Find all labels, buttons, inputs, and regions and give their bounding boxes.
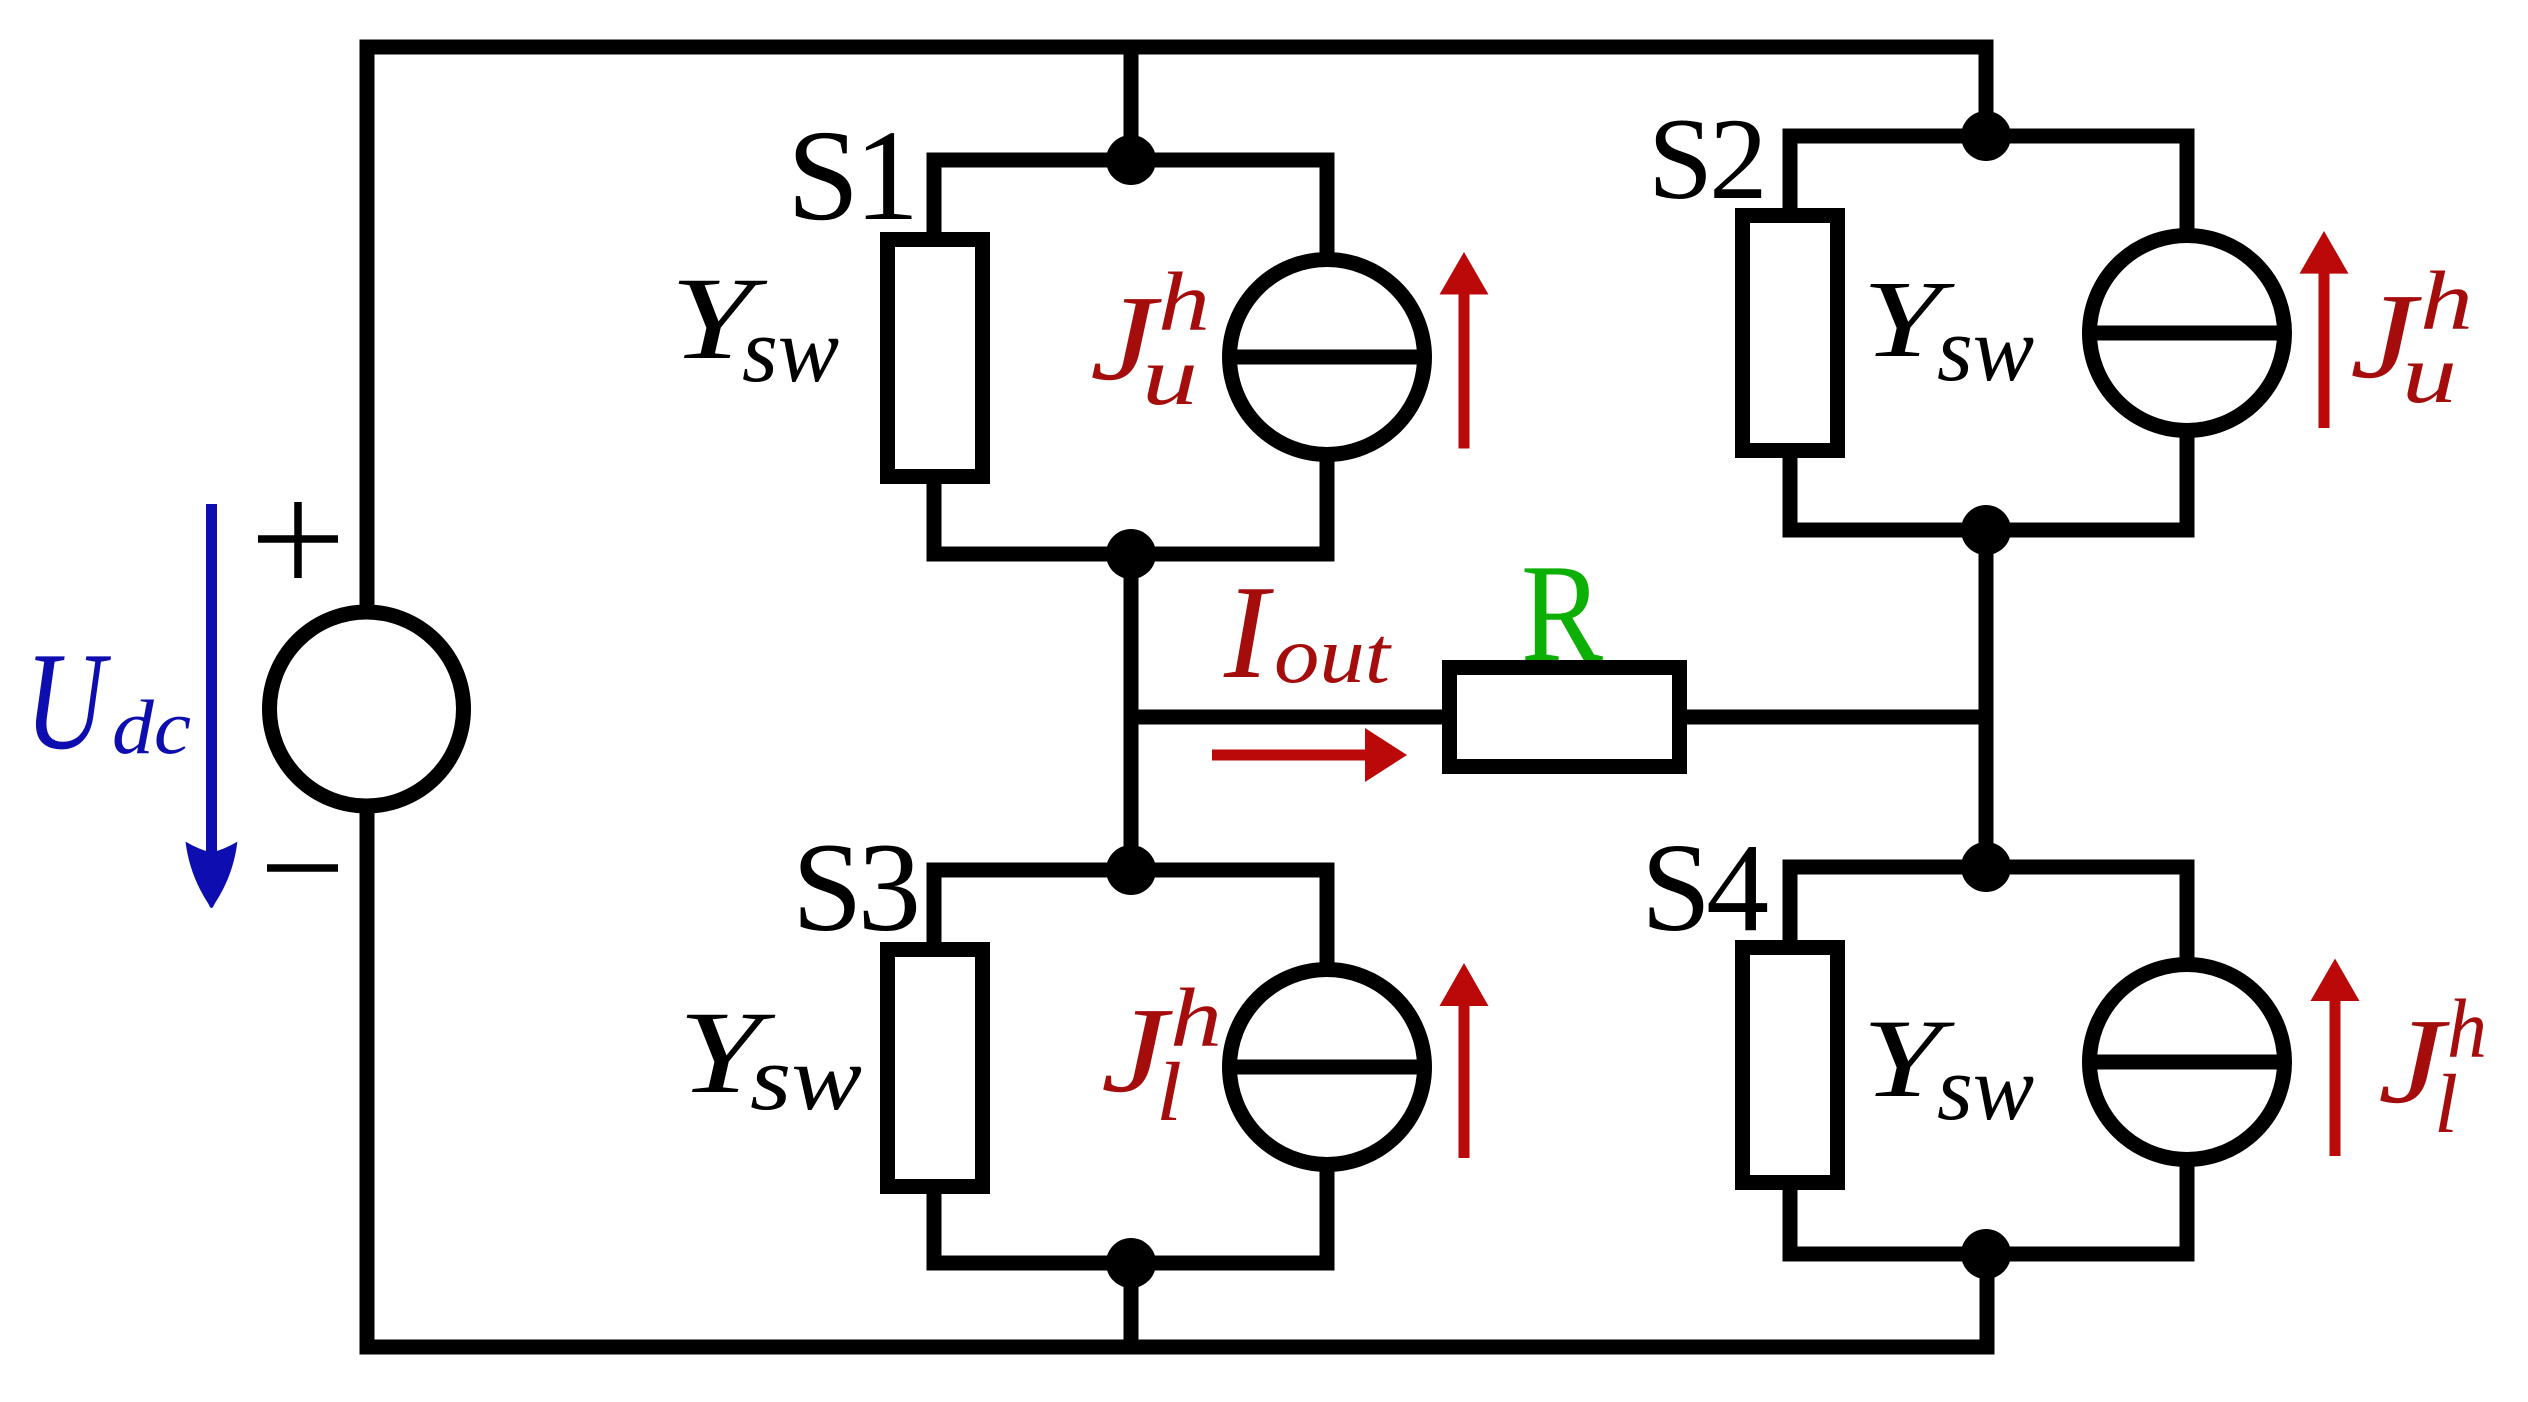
wire S3 cell bottom U [934,1162,1327,1263]
current arrow of J4 [2330,999,2341,1156]
current arrow Iout [1212,750,1367,761]
svg-text:sw: sw [1937,1037,2034,1139]
wire S4 cell top U [1790,867,2187,969]
wire output left segment [1124,710,1443,725]
wire S4 cell bottom U [1790,1157,2187,1254]
wire mid-right vertical [1979,530,1994,867]
voltage arrow Udc blue [206,504,217,858]
current source J1 circle [1230,260,1425,455]
wire outer loop bottom: left wire, bottom rail, rise to S4 node [367,806,1987,1347]
minus sign of Udc [267,864,338,872]
svg-text:u: u [2402,328,2457,421]
svg-text:l: l [1156,1046,1182,1139]
current source J3 circle [1230,970,1425,1165]
wire S1 cell bottom U [934,452,1327,554]
current source J4 circle [2090,965,2285,1160]
node dot S1 top [1106,135,1156,185]
node dot S2 top [1961,111,2011,161]
svg-text:l: l [2434,1058,2458,1151]
resistor Ysw of S3 [888,950,983,1187]
node dot S3 bottom [1106,1238,1156,1288]
wire S3 cell top U [934,870,1327,972]
current arrow of J3 [1459,1004,1470,1158]
resistor Ysw of S4 [1743,948,1838,1183]
svg-text:R: R [1521,536,1604,691]
wire S1 cell top U [934,160,1327,262]
svg-text:u: u [1142,330,1198,423]
resistor R load [1450,668,1680,767]
node dot S3 top [1106,845,1156,895]
wire output right segment [1687,710,1986,725]
svg-text:sw: sw [742,299,839,401]
svg-text:U: U [25,624,111,779]
svg-text:sw: sw [1937,298,2034,400]
svg-text:sw: sw [750,1027,862,1129]
wire S1 top drop [1124,47,1139,160]
wire mid-left vertical [1124,554,1139,870]
resistor Ysw of S2 [1743,216,1838,451]
resistor Ysw of S1 [888,240,983,477]
current source J2 circle [2090,236,2285,431]
wire S3 bottom drop to rail [1124,1263,1139,1347]
plus sign of Udc [258,502,338,578]
svg-text:S2: S2 [1648,95,1764,224]
svg-text:out: out [1274,612,1392,700]
svg-text:S4: S4 [1641,819,1768,958]
svg-text:I: I [1223,558,1274,706]
svg-text:S3: S3 [792,818,917,958]
node dot S1 bottom [1106,529,1156,579]
wire S2 cell bottom U [1790,428,2187,530]
node dot S2 bottom [1961,505,2011,555]
current arrow of J2 [2319,272,2330,428]
wire outer loop top: left wire, top rail, drop to S2 node [367,47,1986,612]
svg-text:S1: S1 [787,104,914,248]
node dot S4 bottom [1961,1229,2011,1279]
voltage source Udc circle [270,612,464,806]
wire S2 cell top U [1790,136,2187,238]
svg-text:dc: dc [112,684,191,770]
current arrow of J1 [1459,292,1470,449]
node dot S4 top [1961,842,2011,892]
